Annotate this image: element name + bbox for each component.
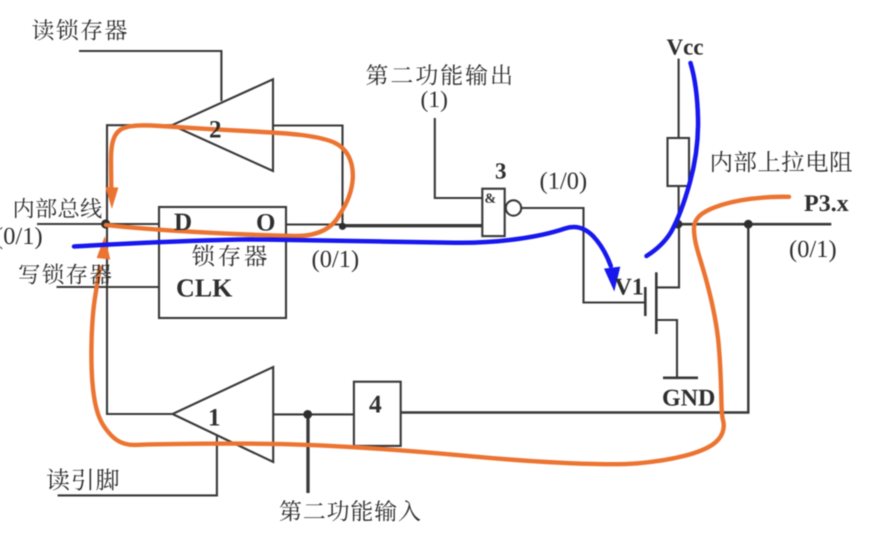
value label (0/1) at latch output	[313, 250, 359, 272]
flow path (orange): read-latch loop through buffer 2	[106, 125, 353, 236]
wire: buffer 2 output to internal bus vertical	[107, 125, 172, 224]
flow path (orange): read-pin loop from P3.x through buffer 1	[91, 197, 789, 464]
label transistor V1	[615, 279, 643, 295]
buffer number 1	[210, 409, 219, 426]
transistor V1 drain wire to pin node	[656, 224, 679, 287]
tri-state buffer 1 (read pin)	[173, 367, 274, 462]
tri-state buffer 2 (read latch)	[172, 79, 273, 171]
internal bus wire	[37, 223, 159, 225]
latch pin label CLK	[177, 279, 232, 296]
latch pin label Q/O	[257, 214, 274, 231]
transistor V1 gate bar	[644, 287, 647, 316]
NAND gate 3 output bubble	[506, 200, 521, 215]
gate number 3	[496, 163, 506, 178]
arrowhead (orange): into internal bus node	[105, 187, 118, 209]
arrowhead (orange): into internal bus node from below	[97, 236, 111, 260]
label: internal pull-up resistor (内部上拉电阻)	[712, 151, 852, 173]
latch pin label D	[174, 214, 190, 230]
wire: resistor to pin node	[678, 186, 680, 224]
latch box	[159, 207, 286, 318]
label: internal bus (内部总线)	[15, 198, 102, 218]
wire: Vcc lead	[678, 59, 680, 138]
NAND symbol &	[485, 193, 495, 202]
wire: read-pin control line to buffer 1 enable	[58, 435, 217, 495]
buffer number 2	[210, 121, 220, 138]
wire: box 4 to buffer 1 input	[273, 413, 354, 415]
node: pin / read-path junction	[744, 220, 753, 229]
transistor V1 source wire to ground	[656, 320, 677, 378]
arrowhead (blue): onto V1 gate	[604, 267, 620, 292]
wire: NAND output to V1 gate	[521, 208, 645, 303]
value label (1/0) at NAND output	[541, 172, 587, 194]
node: latch Q junction	[339, 223, 346, 230]
box 4 (second function input buffer)	[354, 382, 401, 446]
label GND	[663, 390, 714, 406]
resistor: internal pull-up	[668, 138, 690, 186]
label P3.x	[804, 195, 848, 211]
label: read pin (读引脚)	[47, 468, 119, 490]
wire: buffer 2 input from latch Q node	[273, 126, 343, 227]
value label (0/1) at internal bus	[0, 227, 42, 249]
node: internal bus junction	[101, 219, 110, 228]
node: box 4 input junction	[303, 410, 312, 419]
label: second function output (第二功能输出)	[366, 64, 511, 85]
wire: latch Q output to NAND input (bold data path)	[286, 223, 343, 225]
wire: pin to read-pin path (right vertical + bottom run)	[401, 224, 749, 412]
box number 4	[369, 396, 381, 413]
transistor V1 channel bar	[655, 272, 658, 334]
wire: buffer 1 output to internal bus vertical	[107, 224, 173, 414]
wire: second function input stem	[306, 414, 309, 493]
label: read latch (读锁存器)	[32, 19, 126, 41]
label Vcc	[667, 39, 703, 54]
value label (0/1) at pin	[790, 240, 836, 262]
NAND gate 3 body	[482, 189, 504, 236]
pin line P3.x	[678, 223, 831, 226]
flow path (blue): Vcc through pull-up resistor to pin	[647, 63, 699, 256]
label: latch (锁存器)	[192, 245, 267, 267]
value label (1) at second function output	[422, 91, 447, 112]
label: second function input (第二功能输入)	[280, 500, 421, 521]
ground bar	[663, 376, 698, 379]
wire: second function output drop line	[435, 118, 483, 198]
node: pin / pull-up junction	[674, 220, 683, 229]
label: write latch (写锁存器)	[19, 263, 111, 284]
wire: read-latch control line from label to buffer 2 enable	[79, 51, 221, 101]
wire: write-latch CLK line	[57, 286, 160, 288]
flow path (blue): write path from internal bus to V1 gate	[74, 227, 611, 266]
